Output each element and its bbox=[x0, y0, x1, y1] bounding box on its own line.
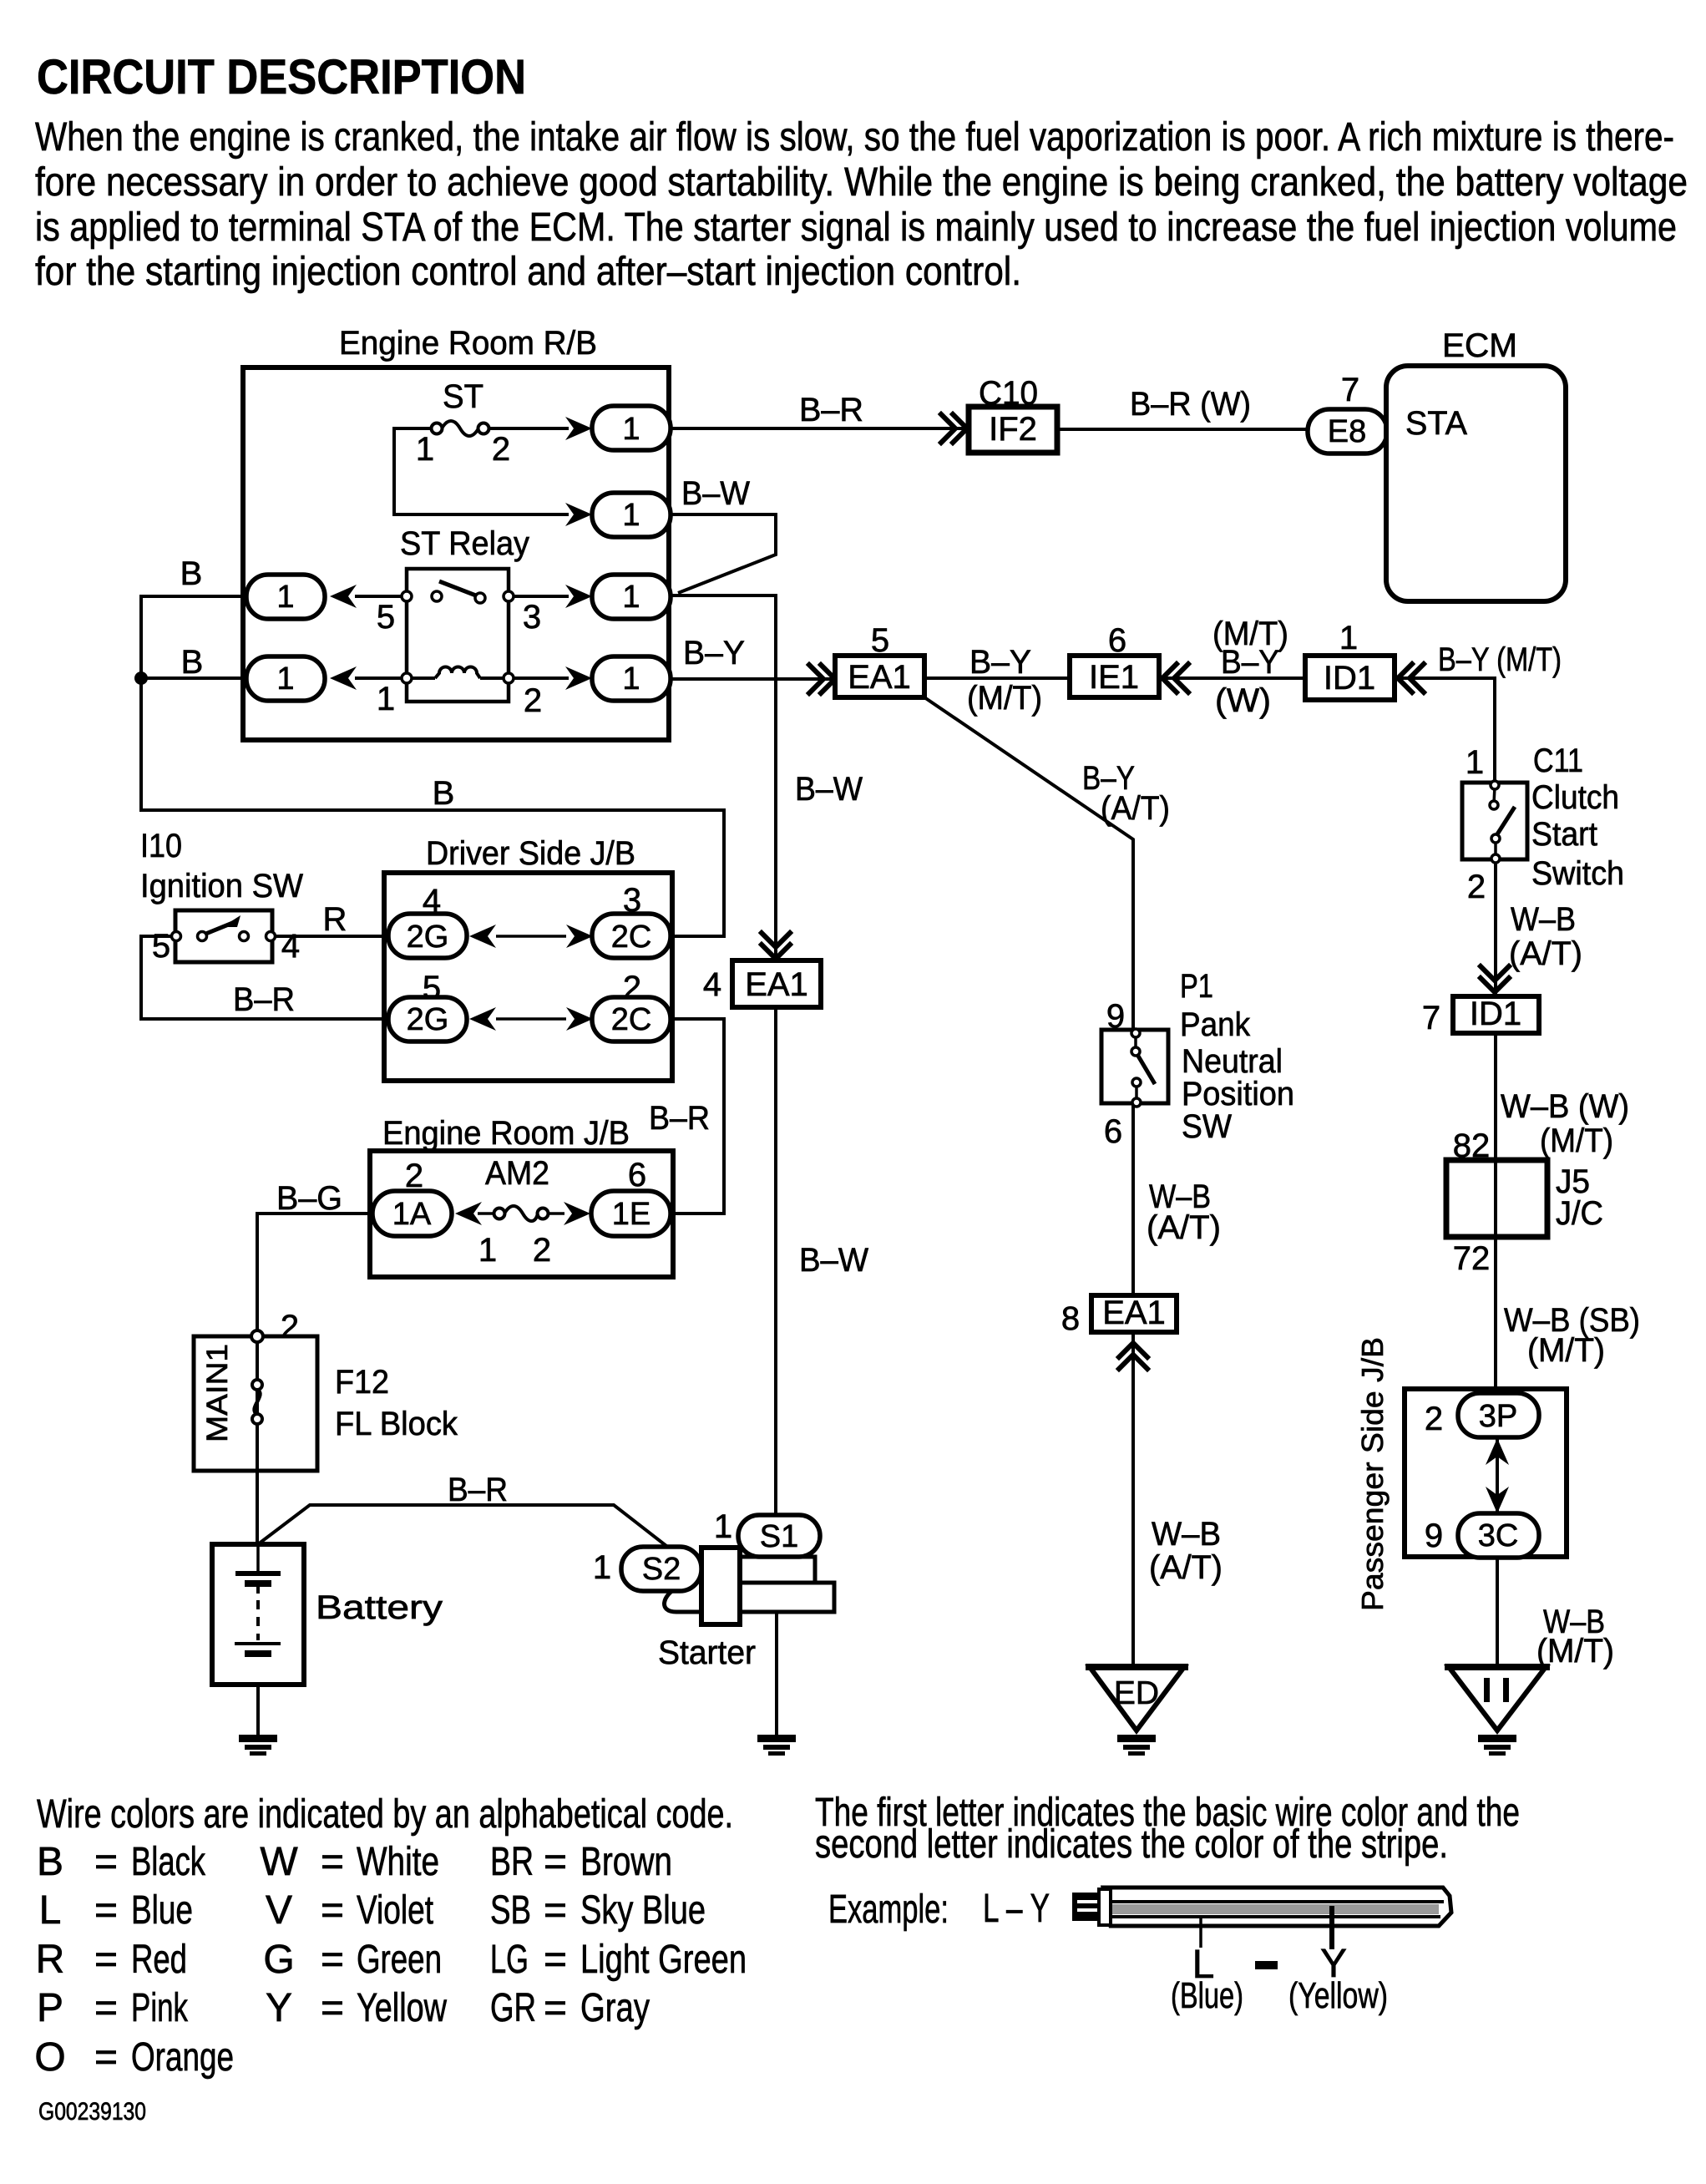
svg-text:7: 7 bbox=[1422, 1000, 1440, 1036]
svg-text:White: White bbox=[357, 1840, 439, 1884]
ground symbol starter bbox=[757, 1735, 796, 1756]
arrow up 3P bbox=[1486, 1438, 1509, 1465]
svg-text:1: 1 bbox=[478, 1232, 497, 1269]
svg-text:C11: C11 bbox=[1533, 742, 1583, 779]
svg-text:2G: 2G bbox=[407, 1002, 449, 1037]
svg-text:I10: I10 bbox=[140, 828, 182, 864]
svg-text:B: B bbox=[181, 644, 204, 681]
svg-text:3C: 3C bbox=[1478, 1518, 1519, 1553]
svg-text:G: G bbox=[263, 1938, 294, 1982]
connector oval 1 contact out bbox=[592, 575, 671, 619]
svg-text:Example:: Example: bbox=[828, 1888, 949, 1932]
svg-text:EA1: EA1 bbox=[745, 966, 808, 1003]
svg-text:ECM: ECM bbox=[1442, 327, 1517, 364]
ECM block bbox=[1386, 366, 1566, 601]
ground symbol ED bbox=[1117, 1735, 1156, 1756]
switch C11 Clutch Start Switch bbox=[1462, 783, 1527, 859]
svg-text:P1: P1 bbox=[1180, 968, 1213, 1005]
svg-text:1: 1 bbox=[416, 431, 434, 468]
svg-text:4: 4 bbox=[281, 928, 300, 965]
svg-text:3P: 3P bbox=[1479, 1399, 1517, 1434]
svg-text:Green: Green bbox=[357, 1938, 442, 1982]
svg-text:B–R: B–R bbox=[448, 1472, 508, 1508]
svg-text:=: = bbox=[94, 1938, 118, 1982]
svg-text:(A/T): (A/T) bbox=[1101, 790, 1170, 827]
wire B-Y EA1 to IE1 bbox=[924, 676, 1070, 680]
wire B-W elbow from oval bbox=[671, 514, 776, 593]
svg-text:(M/T): (M/T) bbox=[1527, 1332, 1605, 1369]
svg-text:Starter: Starter bbox=[658, 1634, 756, 1671]
svg-text:2: 2 bbox=[281, 1309, 299, 1345]
svg-text:1: 1 bbox=[1466, 744, 1484, 781]
ground ED triangle bbox=[1086, 1667, 1188, 1730]
svg-text:1: 1 bbox=[276, 580, 294, 615]
connector oval 2C row2 bbox=[592, 997, 671, 1041]
relay coil bbox=[402, 667, 514, 683]
connector EA1 row5 bbox=[835, 656, 924, 697]
svg-text:6: 6 bbox=[1104, 1113, 1122, 1150]
wire B-Y (A/T) diagonal bbox=[924, 697, 1133, 1030]
svg-text:G00239130: G00239130 bbox=[38, 2098, 146, 2126]
connector oval 2C row1 bbox=[592, 914, 671, 958]
svg-text:GR: GR bbox=[490, 1986, 536, 2030]
svg-text:(M/T): (M/T) bbox=[967, 680, 1042, 717]
arrow to oval 1 contact out bbox=[565, 585, 592, 608]
connector oval 1 left contact bbox=[246, 575, 325, 619]
svg-text:V: V bbox=[266, 1888, 292, 1933]
svg-text:2C: 2C bbox=[611, 1002, 652, 1037]
chevron arrows into EA1 row4 bbox=[762, 933, 790, 959]
wire B-G from 1A to F12 bbox=[257, 1214, 372, 1336]
svg-text:1: 1 bbox=[276, 661, 294, 697]
svg-text:SW: SW bbox=[1182, 1108, 1232, 1145]
svg-text:=: = bbox=[321, 1986, 344, 2030]
arrow right row1 2C bbox=[566, 925, 593, 948]
svg-text:(Blue): (Blue) bbox=[1171, 1975, 1243, 2016]
svg-text:W: W bbox=[260, 1840, 298, 1884]
svg-text:fore necessary in order to ach: fore necessary in order to achieve good … bbox=[35, 160, 1688, 205]
wire 2C to B vertical top row bbox=[672, 935, 724, 938]
chevron arrows into ID1 bbox=[1398, 664, 1424, 692]
svg-text:BR: BR bbox=[490, 1840, 534, 1884]
svg-text:second letter indicates the co: second letter indicates the color of the… bbox=[815, 1822, 1448, 1867]
svg-text:1: 1 bbox=[714, 1508, 732, 1545]
connector oval 1 fuse out B-W bbox=[592, 493, 671, 537]
svg-text:=: = bbox=[321, 1888, 344, 1933]
wire B-Y IE1 to ID1 bbox=[1159, 676, 1305, 680]
wire W-B (A/T) P1 to EA1 to ground ED bbox=[1131, 1103, 1135, 1667]
svg-text:2: 2 bbox=[533, 1232, 551, 1269]
F12 top terminal circle bbox=[251, 1330, 263, 1342]
junction dot B wires bbox=[134, 671, 148, 685]
arrow to oval 1 coil out bbox=[565, 666, 592, 690]
connector oval 1 fuse out B-R bbox=[592, 406, 671, 450]
wire relay contact left bbox=[355, 595, 407, 598]
svg-text:B–R: B–R bbox=[233, 981, 295, 1018]
svg-text:(M/T): (M/T) bbox=[1540, 1122, 1613, 1159]
junction connector J5 bbox=[1446, 1160, 1547, 1237]
junction block Engine Room J/B bbox=[370, 1151, 673, 1277]
svg-text:is applied to terminal STA of: is applied to terminal STA of the ECM. T… bbox=[35, 205, 1677, 250]
svg-text:R: R bbox=[36, 1938, 65, 1982]
svg-text:=: = bbox=[321, 1840, 344, 1884]
arrow right row2 2C bbox=[566, 1007, 593, 1031]
svg-text:1: 1 bbox=[593, 1549, 611, 1586]
wire relay coil right bbox=[509, 676, 569, 680]
svg-text:ST Relay: ST Relay bbox=[400, 525, 529, 562]
svg-text:5: 5 bbox=[152, 928, 170, 965]
svg-text:ID1: ID1 bbox=[1324, 660, 1375, 697]
svg-text:Violet: Violet bbox=[357, 1888, 433, 1933]
wire B-Y to EA1 bbox=[671, 677, 835, 681]
svg-text:Ignition SW: Ignition SW bbox=[140, 868, 303, 905]
svg-text:IE1: IE1 bbox=[1089, 659, 1139, 696]
fuse AM2 bbox=[478, 1206, 564, 1221]
svg-text:S1: S1 bbox=[760, 1519, 798, 1554]
svg-text:B–Y: B–Y bbox=[1221, 644, 1279, 681]
connector IE1 bbox=[1070, 656, 1159, 697]
svg-text:(A/T): (A/T) bbox=[1147, 1209, 1221, 1246]
svg-text:Driver Side J/B: Driver Side J/B bbox=[426, 835, 635, 872]
connector oval 1E bbox=[591, 1191, 671, 1236]
svg-text:ED: ED bbox=[1114, 1675, 1159, 1711]
wire B-W vertical to starter bbox=[671, 595, 776, 1515]
connector ID1 row7 bbox=[1453, 996, 1539, 1033]
svg-text:S2: S2 bbox=[642, 1552, 681, 1587]
svg-text:B–W: B–W bbox=[681, 475, 750, 512]
wire relay coil left bbox=[355, 676, 407, 680]
chevron arrows into EA1 row5 bbox=[809, 665, 835, 693]
switch I10 Ignition SW bbox=[175, 910, 272, 962]
svg-text:LG: LG bbox=[490, 1938, 529, 1982]
svg-text:AM2: AM2 bbox=[485, 1155, 549, 1192]
wire B-Y ID1 to clutch switch bbox=[1395, 678, 1495, 783]
svg-text:72: 72 bbox=[1453, 1240, 1491, 1277]
connector IF2 C10 bbox=[969, 407, 1057, 453]
example wire illustration bbox=[1072, 1888, 1451, 1926]
svg-text:SB: SB bbox=[490, 1888, 531, 1933]
P1 switch contacts bbox=[1131, 1029, 1155, 1107]
svg-text:W–B: W–B bbox=[1511, 901, 1576, 938]
wire 2C row2 to 1E bbox=[672, 1019, 724, 1214]
arrow to left oval 1 contact bbox=[330, 585, 357, 608]
svg-text:Engine Room R/B: Engine Room R/B bbox=[339, 325, 597, 362]
svg-text:2: 2 bbox=[1467, 869, 1486, 905]
arrow down 3C bbox=[1486, 1487, 1509, 1513]
svg-text:Switch: Switch bbox=[1531, 855, 1624, 892]
svg-text:(A/T): (A/T) bbox=[1149, 1549, 1223, 1586]
connector oval 2G row2 bbox=[388, 997, 467, 1041]
wire relay contact right bbox=[509, 595, 569, 598]
svg-text:9: 9 bbox=[1425, 1518, 1443, 1554]
arrow left 1A bbox=[455, 1202, 482, 1225]
svg-text:=: = bbox=[544, 1840, 567, 1884]
svg-text:E8: E8 bbox=[1328, 414, 1366, 449]
connector oval 3P bbox=[1458, 1393, 1539, 1437]
wire B-R (W) IF2 to E8 bbox=[1057, 428, 1308, 431]
starter body bbox=[665, 1548, 834, 1624]
svg-text:2: 2 bbox=[524, 682, 542, 719]
ground symbol battery bbox=[239, 1735, 277, 1756]
svg-text:=: = bbox=[544, 1888, 567, 1933]
svg-text:Pink: Pink bbox=[131, 1986, 189, 2030]
svg-text:=: = bbox=[321, 1938, 344, 1982]
wire 3P to 3C inside J/B bbox=[1496, 1389, 1499, 1557]
svg-text:B–G: B–G bbox=[276, 1180, 342, 1217]
connector oval 1 coil out bbox=[592, 656, 671, 701]
svg-text:B–R (W): B–R (W) bbox=[1130, 386, 1251, 423]
wire B left vertical with branches bbox=[141, 596, 724, 936]
svg-text:1E: 1E bbox=[612, 1197, 651, 1232]
wire F12 to battery bbox=[256, 1342, 259, 1544]
arrow left row2 2G bbox=[469, 1007, 496, 1031]
svg-text:Blue: Blue bbox=[131, 1888, 193, 1933]
svg-text:B: B bbox=[180, 555, 203, 592]
svg-text:B–W: B–W bbox=[795, 771, 863, 808]
wire starter to ground bbox=[775, 1612, 778, 1735]
svg-text:Red: Red bbox=[131, 1938, 187, 1982]
svg-text:Gray: Gray bbox=[580, 1986, 650, 2030]
svg-text:1: 1 bbox=[377, 681, 395, 717]
svg-text:STA: STA bbox=[1405, 405, 1467, 442]
svg-text:Start: Start bbox=[1531, 816, 1597, 853]
connector EA1 row4 bbox=[732, 960, 821, 1007]
svg-text:W–B: W–B bbox=[1152, 1516, 1221, 1553]
svg-text:L – Y: L – Y bbox=[983, 1887, 1050, 1931]
svg-text:3: 3 bbox=[523, 599, 541, 636]
svg-text:Light Green: Light Green bbox=[580, 1938, 747, 1982]
wire B second branch bbox=[141, 676, 247, 680]
svg-text:for the starting injection con: for the starting injection control and a… bbox=[35, 250, 1021, 294]
svg-text:=: = bbox=[94, 2035, 118, 2080]
connector oval 1 left coil bbox=[246, 656, 325, 701]
ignition switch contacts bbox=[172, 915, 276, 941]
connector oval 3C bbox=[1458, 1513, 1539, 1558]
svg-text:B–Y: B–Y bbox=[969, 644, 1031, 681]
wire ignition R to 2G bbox=[276, 935, 389, 938]
svg-text:ID1: ID1 bbox=[1470, 996, 1521, 1032]
connector oval 1A bbox=[372, 1191, 452, 1236]
svg-text:(A/T): (A/T) bbox=[1509, 935, 1582, 972]
fusible link MAIN1 bbox=[252, 1380, 262, 1424]
wire between 2G 2C row1 bbox=[496, 935, 566, 938]
connector oval S1 bbox=[738, 1515, 820, 1557]
svg-text:4: 4 bbox=[703, 966, 721, 1003]
wire ST fuse to B-R oval bbox=[483, 427, 569, 430]
connector oval 2G row1 bbox=[388, 914, 467, 958]
wire B-R to IF2 bbox=[671, 427, 969, 430]
svg-text:8: 8 bbox=[1061, 1300, 1080, 1337]
C11 switch contacts bbox=[1490, 781, 1515, 863]
svg-text:7: 7 bbox=[1341, 372, 1359, 408]
svg-text:When the engine is cranked, th: When the engine is cranked, the intake a… bbox=[35, 115, 1674, 160]
chevron arrows into IF2 bbox=[941, 414, 967, 443]
relay contact bbox=[402, 581, 514, 603]
svg-text:Black: Black bbox=[131, 1840, 206, 1884]
svg-text:1: 1 bbox=[622, 580, 640, 615]
svg-text:=: = bbox=[544, 1938, 567, 1982]
fuse ST bbox=[432, 421, 489, 436]
svg-text:2: 2 bbox=[492, 431, 510, 468]
svg-text:=: = bbox=[94, 1840, 118, 1884]
arrow right 1E bbox=[564, 1202, 590, 1225]
battery bbox=[212, 1544, 304, 1685]
svg-text:EA1: EA1 bbox=[1102, 1295, 1166, 1331]
J5 internal wire bbox=[1494, 1160, 1497, 1237]
svg-text:Clutch: Clutch bbox=[1531, 779, 1619, 816]
svg-text:Orange: Orange bbox=[131, 2035, 234, 2080]
connector oval E8 bbox=[1308, 409, 1387, 454]
arrow to left oval 1 coil bbox=[330, 666, 357, 690]
wire between 2G 2C row2 bbox=[496, 1017, 566, 1021]
svg-text:(W): (W) bbox=[1215, 682, 1271, 719]
arrow to oval 1 fuse top bbox=[565, 417, 592, 440]
svg-text:B–Y (M/T): B–Y (M/T) bbox=[1438, 641, 1562, 678]
connector oval S2 bbox=[621, 1547, 701, 1591]
svg-text:Brown: Brown bbox=[580, 1840, 672, 1884]
svg-text:Wire colors are indicated by a: Wire colors are indicated by an alphabet… bbox=[37, 1792, 733, 1837]
wire battery to ground bbox=[256, 1657, 260, 1735]
chevron arrows into EA1 row8 bbox=[1119, 1343, 1147, 1369]
svg-text:CIRCUIT DESCRIPTION: CIRCUIT DESCRIPTION bbox=[37, 50, 526, 104]
svg-text:(Yellow): (Yellow) bbox=[1288, 1975, 1388, 2016]
ground II triangle bbox=[1445, 1667, 1550, 1730]
svg-text:Neutral: Neutral bbox=[1182, 1043, 1283, 1080]
ground symbol II bbox=[1478, 1735, 1516, 1756]
svg-text:1: 1 bbox=[622, 498, 640, 533]
svg-text:Passenger Side J/B: Passenger Side J/B bbox=[1355, 1337, 1390, 1611]
svg-text:B–W: B–W bbox=[799, 1242, 868, 1279]
svg-text:ST: ST bbox=[443, 378, 483, 415]
svg-text:Battery: Battery bbox=[316, 1589, 443, 1626]
junction block Driver Side J/B bbox=[384, 873, 672, 1081]
chevron arrows into ID1 row7 bbox=[1481, 966, 1509, 992]
arrow to oval 1 B-W bbox=[565, 503, 592, 526]
fuse block F12 bbox=[194, 1336, 317, 1471]
svg-text:MAIN1: MAIN1 bbox=[201, 1344, 234, 1442]
svg-text:=: = bbox=[94, 1986, 118, 2030]
junction block Passenger Side J/B bbox=[1405, 1389, 1567, 1557]
svg-text:=: = bbox=[544, 1986, 567, 2030]
svg-text:FL Block: FL Block bbox=[335, 1406, 458, 1442]
wire ST fuse loop to B-W oval bbox=[394, 428, 569, 514]
svg-text:5: 5 bbox=[377, 599, 395, 636]
svg-text:Sky Blue: Sky Blue bbox=[580, 1888, 706, 1933]
svg-text:Pank: Pank bbox=[1180, 1006, 1251, 1043]
svg-text:W–B (W): W–B (W) bbox=[1501, 1088, 1629, 1125]
svg-text:1: 1 bbox=[622, 661, 640, 697]
svg-text:B–R: B–R bbox=[649, 1100, 710, 1137]
svg-text:Engine Room J/B: Engine Room J/B bbox=[382, 1115, 630, 1152]
svg-text:L: L bbox=[39, 1888, 62, 1933]
svg-text:B–R: B–R bbox=[799, 392, 863, 428]
svg-text:Yellow: Yellow bbox=[357, 1986, 447, 2030]
svg-text:6: 6 bbox=[628, 1157, 646, 1193]
svg-text:2: 2 bbox=[1425, 1401, 1443, 1437]
svg-text:1: 1 bbox=[1339, 620, 1358, 656]
svg-text:Y: Y bbox=[266, 1986, 292, 2030]
arrow left row1 2G bbox=[469, 925, 496, 948]
wire clutch switch to ID1 to J5 to 3P bbox=[1494, 859, 1497, 1389]
junction block Engine Room R/B bbox=[243, 367, 669, 740]
svg-text:IF2: IF2 bbox=[989, 411, 1037, 448]
svg-text:B: B bbox=[433, 775, 455, 812]
svg-text:2C: 2C bbox=[611, 920, 652, 955]
dash between L and Y bbox=[1255, 1961, 1278, 1969]
connector ID1 row1 bbox=[1305, 656, 1395, 700]
svg-text:O: O bbox=[34, 2035, 65, 2080]
svg-text:1: 1 bbox=[622, 412, 640, 447]
relay ST Relay bbox=[407, 569, 509, 702]
svg-text:2G: 2G bbox=[407, 920, 449, 955]
svg-text:R: R bbox=[323, 901, 347, 938]
wire ignition B-R loop bbox=[141, 936, 389, 1019]
svg-text:1A: 1A bbox=[392, 1197, 432, 1232]
svg-text:B–Y: B–Y bbox=[683, 635, 745, 671]
svg-text:P: P bbox=[37, 1986, 63, 2030]
svg-text:EA1: EA1 bbox=[848, 659, 911, 696]
example wire callout lines bbox=[1199, 1918, 1202, 1948]
switch P1 Pank Neutral Position SW bbox=[1101, 1030, 1168, 1103]
svg-text:=: = bbox=[94, 1888, 118, 1933]
svg-text:B: B bbox=[37, 1840, 63, 1884]
chevron arrows into IE1 bbox=[1162, 664, 1188, 692]
svg-text:Position: Position bbox=[1182, 1076, 1294, 1112]
wire 3C to ground II bbox=[1496, 1557, 1499, 1667]
wire B-R battery to starter S2 bbox=[258, 1505, 666, 1546]
svg-text:J/C: J/C bbox=[1556, 1195, 1603, 1232]
svg-text:F12: F12 bbox=[335, 1364, 389, 1401]
connector EA1 row8 bbox=[1091, 1295, 1177, 1332]
